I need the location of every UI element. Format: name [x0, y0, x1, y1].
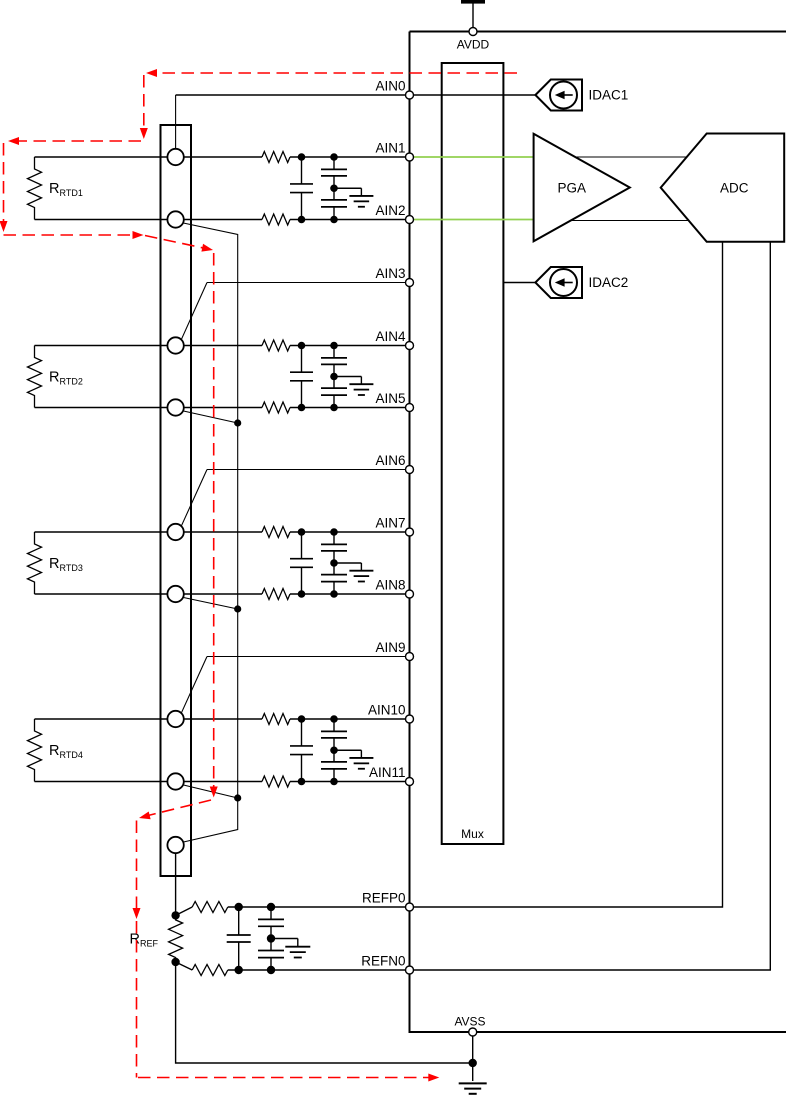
- wire RTD1 bottom lead: [35, 219, 176, 221]
- capacitor common-mode lower (group 3): [321, 563, 347, 594]
- wire AIN9 sense: [207, 656, 410, 658]
- pin AIN10: [406, 715, 414, 723]
- pin AIN4: [406, 342, 414, 350]
- terminal circle RTD2 top: [167, 337, 183, 353]
- capacitor common-mode upper (group 3): [321, 532, 347, 563]
- wire terminal to filter bottom (group 4): [176, 781, 262, 783]
- label AIN2: [375, 203, 405, 218]
- wire chain to reference terminal: [184, 798, 238, 842]
- pin AIN0: [406, 91, 414, 99]
- wire AIN9 diagonal to terminal: [181, 657, 207, 714]
- ground (group 2): [334, 377, 373, 396]
- label IDAC1: [589, 88, 629, 103]
- junction chain-RTD2: [234, 419, 241, 426]
- multiplexer Mux block: [442, 63, 504, 844]
- svg-text:AIN11: AIN11: [369, 765, 406, 780]
- wire AVSS pin to ground: [472, 1032, 474, 1081]
- resistor filter top (group 4): [262, 714, 290, 725]
- svg-text:AIN9: AIN9: [375, 640, 405, 655]
- capacitor common-mode upper (group 1): [321, 157, 347, 188]
- svg-text:AIN6: AIN6: [375, 453, 405, 468]
- resistor filter top (group 2): [262, 340, 290, 351]
- red current path segment 2: [140, 75, 148, 139]
- pin AIN1: [406, 153, 414, 161]
- pin AIN11: [406, 778, 414, 786]
- wire terminal to filter top (group 2): [176, 345, 262, 347]
- junction chain-RTD3: [234, 605, 241, 612]
- capacitor reference differential: [227, 907, 251, 970]
- wire RTD2 top lead: [35, 345, 176, 347]
- ADC block: [661, 134, 785, 242]
- wire filter to AIN pin top (group 4): [290, 718, 410, 720]
- ground AVSS: [459, 1083, 487, 1093]
- label AIN3: [375, 266, 405, 281]
- resistor REFN0 filter: [192, 965, 228, 976]
- wire RTD4 top lead: [35, 718, 176, 720]
- capacitor common-mode upper (group 2): [321, 346, 347, 377]
- junction dots (group 4): [298, 715, 338, 785]
- pin REFP0: [406, 903, 414, 911]
- pin AIN6: [406, 466, 414, 474]
- pin AIN7: [406, 528, 414, 536]
- capacitor differential (group 3): [290, 532, 313, 594]
- wire terminal to filter top (group 3): [176, 531, 262, 533]
- terminal circle reference: [167, 837, 183, 853]
- svg-text:PGA: PGA: [558, 181, 587, 196]
- wire REFP0 to ADC riser: [410, 242, 723, 907]
- resistor RREF: [169, 915, 183, 962]
- wire AIN6 sense: [207, 469, 410, 471]
- label Mux: [461, 827, 484, 841]
- capacitor differential (group 4): [290, 719, 313, 782]
- wire RTD3 bottom to chain: [184, 598, 238, 610]
- wire RTD1 top lead: [35, 156, 176, 158]
- wire AIN6 diagonal to terminal: [181, 470, 207, 527]
- label AVDD: [457, 38, 490, 52]
- pin AIN8: [406, 590, 414, 598]
- resistor filter bottom (group 1): [262, 214, 290, 225]
- capacitor reference common-mode lower: [258, 939, 284, 971]
- label AIN5: [375, 391, 405, 406]
- svg-text:AIN8: AIN8: [375, 578, 405, 593]
- terminal circle RTD4 top: [167, 711, 183, 727]
- svg-text:AIN1: AIN1: [375, 141, 405, 156]
- label AIN9: [375, 640, 405, 655]
- wire RTD3 top lead: [35, 531, 176, 533]
- wire terminal to filter top (group 4): [176, 718, 262, 720]
- capacitor differential (group 2): [290, 346, 313, 408]
- label AIN0: [375, 79, 405, 94]
- wire Mux to IDAC2: [503, 282, 535, 284]
- wire RREF to AVSS ground: [176, 962, 473, 1063]
- svg-text:RREF: RREF: [130, 932, 159, 949]
- label IDAC2: [589, 275, 629, 290]
- label AVSS: [454, 1015, 485, 1029]
- label RREF: [130, 932, 159, 949]
- wire filter to AIN pin top (group 1): [290, 156, 410, 158]
- label ADC: [720, 181, 749, 196]
- capacitor common-mode lower (group 1): [321, 188, 347, 219]
- red current path segment 8 (to reference): [138, 800, 211, 822]
- resistor RRTD2: [28, 346, 42, 408]
- ground (group 1): [334, 188, 373, 207]
- pin AIN5: [406, 404, 414, 412]
- terminal circle RTD3 top: [167, 524, 183, 540]
- terminal circle RTD1 bottom: [167, 211, 183, 227]
- pin AIN9: [406, 653, 414, 661]
- terminal circle RTD2 bottom: [167, 399, 183, 415]
- label REFN0: [361, 954, 405, 969]
- svg-text:AVDD: AVDD: [457, 38, 490, 52]
- terminal circle RTD1 top: [167, 149, 183, 165]
- wire terminal to filter bottom (group 1): [176, 219, 262, 221]
- power symbol AVDD bar: [461, 0, 485, 4]
- resistor RRTD1: [28, 157, 42, 220]
- wire reference terminal to RREF: [175, 853, 177, 915]
- label AIN1: [375, 141, 405, 156]
- svg-text:AIN3: AIN3: [375, 266, 405, 281]
- label RRTD2: [49, 369, 83, 386]
- junction dots reference filter: [171, 903, 275, 974]
- red current path segment 3: [8, 137, 141, 145]
- pin AIN3: [406, 279, 414, 287]
- wire REFN0 to ADC riser: [410, 242, 771, 970]
- label AIN4: [375, 329, 406, 344]
- resistor REFP0 filter: [192, 902, 228, 913]
- ground (group 4): [334, 750, 373, 769]
- wire PGA to ADC upper: [560, 156, 700, 158]
- capacitor common-mode lower (group 4): [321, 750, 347, 781]
- svg-text:AVSS: AVSS: [454, 1015, 485, 1029]
- pin AVDD: [469, 28, 477, 36]
- label AIN8: [375, 578, 405, 593]
- svg-text:RRTD1: RRTD1: [49, 181, 83, 198]
- wire RREF top to REFP0 filter: [176, 907, 193, 915]
- resistor RRTD3: [28, 532, 42, 594]
- wire REFN0: [228, 969, 410, 971]
- wire AIN2 to PGA (green): [411, 219, 535, 221]
- red current path segment 5: [4, 231, 144, 239]
- svg-text:AIN10: AIN10: [368, 703, 406, 718]
- label AIN10: [368, 703, 406, 718]
- terminal circle RTD4 bottom: [167, 773, 183, 789]
- wire AVDD supply to pin: [472, 2, 474, 32]
- svg-text:AIN5: AIN5: [375, 391, 405, 406]
- svg-text:RRTD2: RRTD2: [49, 369, 83, 386]
- resistor filter top (group 3): [262, 527, 290, 538]
- svg-text:AIN0: AIN0: [375, 79, 405, 94]
- resistor filter bottom (group 3): [262, 589, 290, 600]
- pin AVSS: [469, 1028, 477, 1036]
- wire AIN0 drop to terminal 1: [175, 95, 177, 157]
- wire filter to AIN pin top (group 2): [290, 345, 410, 347]
- junction dots (group 2): [298, 342, 338, 412]
- wire filter to AIN pin bottom (group 1): [290, 219, 410, 221]
- svg-text:RRTD3: RRTD3: [49, 556, 83, 573]
- wire filter to AIN pin top (group 3): [290, 531, 410, 533]
- capacitor common-mode upper (group 4): [321, 719, 347, 750]
- wire REFP0: [228, 906, 410, 908]
- wire RTD4 bottom lead: [35, 781, 176, 783]
- red current path segment 1 (IDAC1 out): [146, 69, 517, 77]
- svg-text:AIN4: AIN4: [375, 329, 406, 344]
- svg-text:REFP0: REFP0: [362, 891, 406, 906]
- ground (group 3): [334, 563, 373, 582]
- red current path segment 7 (chain down): [210, 253, 218, 798]
- label REFP0: [362, 891, 406, 906]
- label AIN7: [375, 516, 405, 531]
- label RRTD3: [49, 556, 83, 573]
- resistor filter bottom (group 4): [262, 776, 290, 787]
- terminal block: [161, 125, 192, 876]
- svg-text:RRTD4: RRTD4: [49, 743, 83, 760]
- svg-text:AIN7: AIN7: [375, 516, 405, 531]
- svg-text:AIN2: AIN2: [375, 203, 405, 218]
- wire AIN3 diagonal to terminal: [181, 283, 207, 340]
- label AIN6: [375, 453, 405, 468]
- junction dots (group 1): [298, 153, 338, 223]
- wire terminal to filter bottom (group 2): [176, 407, 262, 409]
- wire PGA to ADC lower: [560, 220, 700, 222]
- junction chain-RTD4: [234, 794, 241, 801]
- label AIN11: [369, 765, 406, 780]
- svg-text:ADC: ADC: [720, 181, 749, 196]
- wire terminal to filter top (group 1): [176, 156, 262, 158]
- svg-text:IDAC2: IDAC2: [589, 275, 629, 290]
- red current path segment 11 (to AVSS ground): [138, 1074, 439, 1082]
- wire RREF bottom to REFN0 filter: [176, 962, 193, 970]
- wire terminal to filter bottom (group 3): [176, 593, 262, 595]
- capacitor reference common-mode upper: [258, 907, 284, 939]
- wire chain from terminal AIN2: [183, 223, 237, 798]
- resistor RRTD4: [28, 719, 42, 782]
- wire AIN3 sense: [207, 282, 410, 284]
- label RRTD1: [49, 181, 83, 198]
- red current path segment 6 (into chain): [145, 236, 214, 254]
- wire filter to AIN pin bottom (group 4): [290, 781, 410, 783]
- wire RTD2 bottom lead: [35, 407, 176, 409]
- capacitor differential (group 1): [290, 157, 313, 220]
- pin REFN0: [406, 966, 414, 974]
- ADC chip outline (partial rectangle): [410, 32, 786, 1033]
- wire filter to AIN pin bottom (group 2): [290, 407, 410, 409]
- resistor filter bottom (group 2): [262, 402, 290, 413]
- op-amp PGA: [534, 134, 630, 242]
- red current path segment 9 (RREF down): [133, 821, 141, 920]
- current source IDAC1: [535, 80, 582, 111]
- wire filter to AIN pin bottom (group 3): [290, 593, 410, 595]
- svg-text:IDAC1: IDAC1: [589, 88, 629, 103]
- wire AIN1 to PGA (green): [411, 156, 535, 158]
- label RRTD4: [49, 743, 83, 760]
- svg-text:REFN0: REFN0: [361, 954, 405, 969]
- current source IDAC2: [535, 267, 582, 298]
- red current path segment 4: [0, 143, 8, 232]
- red current path segment 10: [136, 921, 138, 1078]
- svg-text:Mux: Mux: [461, 827, 484, 841]
- resistor filter top (group 1): [262, 152, 290, 163]
- wire AIN0 to IDAC1: [176, 94, 536, 96]
- wire RTD4 bottom to chain: [184, 785, 238, 798]
- junction dots (group 3): [298, 528, 338, 598]
- wire RTD2 bottom to chain: [184, 411, 238, 423]
- wire RTD3 bottom lead: [35, 593, 176, 595]
- ground reference filter: [271, 939, 310, 958]
- label PGA: [558, 181, 587, 196]
- pin AIN2: [406, 216, 414, 224]
- capacitor common-mode lower (group 2): [321, 377, 347, 408]
- junction AVSS ground: [469, 1059, 477, 1067]
- terminal circle RTD3 bottom: [167, 586, 183, 602]
